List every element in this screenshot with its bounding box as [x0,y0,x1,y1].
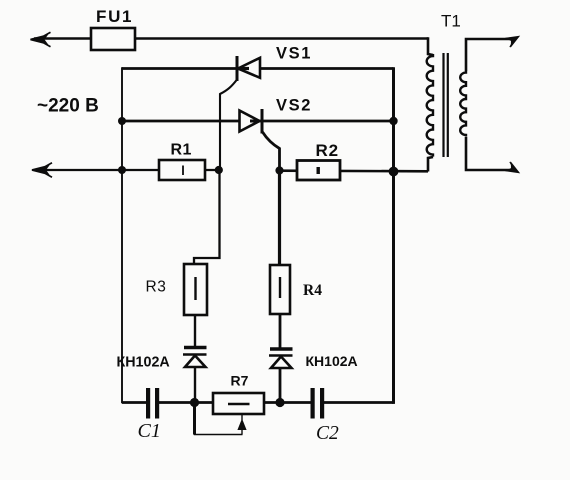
node: R1 / VS1 gate [215,166,223,174]
wire: secondary top lead [466,39,512,71]
resistor R1 [159,160,205,180]
thyristor VS1 [220,56,260,167]
wire: VS2 gate drop to R4 [278,170,281,266]
wire: left vertical bus [121,67,123,403]
transformer core [442,53,444,157]
node: R2 / VS2 gate [275,166,283,174]
dinistor VD1 (КН102А) [183,348,207,368]
wire: bottom row [122,401,147,404]
wire: VS1 gate drop to R3 [194,170,220,265]
capacitor C1 [146,388,150,419]
dinistor VD2 (КН102А) [269,349,293,368]
arrow: top-left AC terminal [31,32,51,46]
resistor R2 [297,161,340,181]
arrow: secondary bottom terminal [505,162,521,177]
node: left bus / R1 row [118,166,126,174]
svg-text:~220 В: ~220 В [37,96,99,117]
wire: VS2 row [122,120,394,123]
wire: R3 to dinistor [194,315,196,347]
transformer T1 secondary winding [460,71,466,137]
svg-text:КН102А: КН102А [306,353,358,369]
wire: dinistor to bottom row [194,368,196,403]
wire: R2 row to transformer [280,169,429,172]
svg-text:VS1: VS1 [276,45,312,63]
resistor R4 [270,265,290,314]
fuse FU1 [91,28,135,50]
wire: dinistor to bottom row [279,369,282,403]
svg-text:КН102А: КН102А [117,355,170,371]
wire: R1 row (left AC line) [36,169,219,171]
arrow: bottom-left AC terminal [32,163,52,177]
wire: right vertical line [392,67,395,404]
thyristor VS2 [240,109,280,167]
potentiometer R7 [194,393,264,435]
svg-text:R7: R7 [231,373,249,389]
svg-text:R3: R3 [146,279,167,296]
node: left bus / VS2 row [118,117,126,125]
svg-text:R4: R4 [303,282,322,299]
capacitor C2 [311,388,315,419]
resistor R3 [184,264,207,315]
wire: R4 to dinistor [279,314,282,349]
node: bottom row / right dinistor [275,398,284,407]
node: R2 row / right line [389,167,399,177]
svg-text:R2: R2 [316,141,339,160]
svg-text:VS2: VS2 [276,97,312,115]
wire: secondary bottom lead [466,137,512,170]
transformer T1 primary lead top [428,37,433,55]
node: VS2 row / right line [389,117,397,125]
wire: VS1 anode row [122,67,394,70]
svg-text:C2: C2 [316,423,339,444]
svg-text:T1: T1 [441,12,461,31]
transformer T1 primary winding [427,54,433,157]
arrow: secondary top terminal [505,32,521,47]
node: bottom row / left dinistor [190,398,199,407]
svg-text:R1: R1 [171,142,192,159]
transformer T1 primary lead bottom [428,157,433,172]
svg-text:FU1: FU1 [96,7,133,26]
wire: top AC line (fuse row) [34,37,428,40]
svg-text:C1: C1 [138,420,161,442]
